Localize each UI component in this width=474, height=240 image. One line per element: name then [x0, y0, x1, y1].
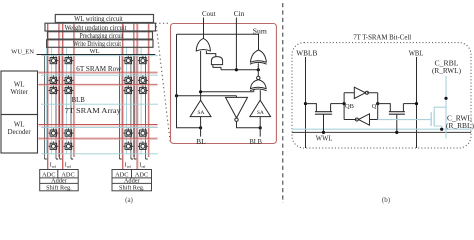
xor-gate (Sum)	[250, 50, 266, 62]
7T bit-cell dotted border	[292, 43, 471, 148]
wire Cout	[203, 18, 205, 39]
svg-text:Write Driving circuit: Write Driving circuit	[73, 40, 121, 48]
cell at (142.9,143.2)	[140, 143, 147, 149]
cell at (68.4,130.0)	[65, 130, 72, 136]
dashed divider between (a) and (b)	[282, 3, 284, 203]
or-gate (Cout)	[196, 38, 210, 50]
inverter (BL to BLB)	[226, 97, 248, 118]
svg-text:WU_EN: WU_EN	[11, 48, 34, 55]
cell at (128.3,57.5)	[125, 58, 132, 64]
wire Q to M2	[378, 104, 391, 112]
wire M2 gate to WWL	[396, 114, 398, 132]
cell at (68.4,57.5)	[65, 58, 72, 64]
svg-text:(R_RBL): (R_RBL)	[446, 123, 474, 130]
svg-text:Q: Q	[372, 103, 377, 110]
junction XOR input	[257, 68, 260, 71]
svg-text:Shift Reg.: Shift Reg.	[46, 185, 72, 192]
cell at (142.9,77.3)	[140, 77, 147, 83]
wire OR right input from AND	[206, 51, 215, 57]
cell at (128.3,87.4)	[125, 87, 132, 93]
svg-text:6T SRAM Row: 6T SRAM Row	[76, 65, 122, 73]
Weight updation circuit box	[45, 23, 156, 31]
wire AND inputs step	[213, 65, 221, 70]
svg-text:(b): (b)	[382, 196, 391, 204]
wire M3 gate to Q loop	[378, 119, 432, 121]
bitline columns (teal/black/red vertical lines of SRAM array)	[45, 48, 47, 154]
wire M1 gate to WWL	[323, 114, 325, 132]
svg-text:Adder: Adder	[124, 178, 141, 185]
svg-text:Precharging circuit: Precharging circuit	[80, 32, 124, 40]
wire WBLB	[305, 57, 307, 148]
svg-text:(a): (a)	[125, 196, 133, 204]
svg-text:Cin: Cin	[234, 10, 245, 18]
cell at (68.4,87.4)	[65, 87, 72, 93]
sense amp SA1	[190, 100, 211, 116]
cell at (53.4,87.4)	[50, 87, 57, 93]
transistor M1 (left access)	[330, 104, 332, 112]
svg-text:7T SRAM Array: 7T SRAM Array	[65, 107, 121, 115]
node QB	[343, 102, 346, 105]
inverter I1 (top, points right)	[354, 87, 365, 98]
wire M3 source to C_RWL	[434, 126, 442, 129]
cell at (68.4,77.3)	[65, 77, 72, 83]
wire Sum	[177, 34, 259, 50]
cell at (142.9,130.0)	[140, 130, 147, 136]
cell at (128.3,77.3)	[125, 77, 132, 83]
transistor M3 (cyan read)	[434, 107, 446, 112]
svg-text:WBL: WBL	[409, 51, 424, 58]
svg-text:C_RBL: C_RBL	[435, 61, 459, 68]
wire BL	[200, 117, 202, 137]
svg-text:WL writing circuit: WL writing circuit	[74, 15, 123, 23]
svg-text:Shift Reg.: Shift Reg.	[119, 185, 145, 192]
Precharging circuit box	[48, 32, 153, 39]
junction C_RBL	[444, 97, 447, 100]
node Q	[376, 102, 379, 105]
cell at (142.9,57.5)	[140, 58, 147, 64]
wire Cin	[235, 18, 237, 70]
wire WBLB to M1	[306, 104, 317, 112]
ADC/Adder/Shift Reg block	[112, 170, 152, 191]
svg-text:BLB: BLB	[249, 138, 262, 146]
wire XNOR left input from bus	[253, 89, 255, 92]
svg-text:QB: QB	[345, 103, 354, 110]
and-gate	[211, 57, 222, 65]
cell at (128.3,130.0)	[125, 130, 132, 136]
sense amp SA2	[250, 100, 271, 116]
transistor M2 (right access)	[402, 104, 404, 112]
wire C_RWL (teal horizontal)	[292, 128, 471, 130]
svg-text:Adder: Adder	[51, 178, 68, 185]
svg-text:WL: WL	[14, 122, 25, 129]
cell at (53.4,143.2)	[50, 143, 57, 149]
svg-text:BL: BL	[196, 138, 206, 146]
svg-text:(R_RWL): (R_RWL)	[432, 68, 461, 75]
red detail box	[171, 24, 277, 144]
wire BLB	[259, 117, 261, 137]
wire bus2 BL->inverter	[177, 95, 237, 97]
svg-text:WL: WL	[14, 82, 25, 89]
magnifier dotted connector (top)	[156, 22, 170, 24]
svg-text:SA: SA	[197, 110, 204, 116]
magnifier dotted diagonal	[156, 26, 170, 143]
ADC/Adder/Shift Reg block	[40, 170, 78, 191]
svg-text:Weight updation circuit: Weight updation circuit	[65, 24, 127, 32]
wire C_RBL (cyan vertical)	[445, 76, 447, 139]
cell at (128.3,143.2)	[125, 143, 132, 149]
wire M1 to QB	[331, 103, 345, 105]
svg-text:Writer: Writer	[10, 89, 28, 96]
svg-text:WBLB: WBLB	[296, 51, 317, 58]
wire WWL	[292, 131, 471, 133]
wire bus Cin/AND to XOR	[221, 69, 258, 71]
svg-text:BLB: BLB	[72, 97, 86, 104]
wire XNOR right input to SA2	[259, 90, 261, 100]
wire M2 to WBL	[403, 103, 416, 105]
svg-text:SA: SA	[257, 110, 264, 116]
WL writing circuit box	[55, 15, 153, 23]
cell at (53.4,130.0)	[50, 130, 57, 136]
junction WBLB	[304, 102, 307, 105]
cell at (53.4,77.3)	[50, 77, 57, 83]
xnor-gate	[257, 76, 260, 79]
inverter I2 (bottom, points left)	[358, 114, 369, 125]
wire BL left riser	[177, 34, 201, 128]
junction Cin	[235, 68, 238, 71]
wire OR left input / SA1 output to OR	[200, 51, 202, 100]
wire WL	[37, 54, 156, 56]
wire WBL	[416, 57, 418, 148]
junction WBL	[415, 102, 418, 105]
svg-text:WWL: WWL	[316, 136, 333, 143]
cell at (68.4,143.2)	[65, 143, 72, 149]
cell at (142.9,87.4)	[140, 87, 147, 93]
WL Writer box	[1, 71, 38, 115]
wire inverter out to BLB	[237, 122, 261, 128]
wire XOR to XNOR	[257, 63, 259, 76]
wire bus1 SA1->XNOR	[201, 91, 254, 93]
Write Driving circuit box	[47, 40, 153, 48]
WL Decoder box	[1, 115, 38, 154]
svg-text:Decoder: Decoder	[8, 129, 32, 136]
cell at (53.4,57.5)	[50, 58, 57, 64]
svg-text:C_RWL: C_RWL	[447, 116, 472, 123]
svg-text:WL: WL	[89, 48, 99, 55]
svg-text:7T T-SRAM Bit-Cell: 7T T-SRAM Bit-Cell	[353, 33, 411, 42]
cross-coupled inverter loop	[344, 93, 378, 120]
svg-text:Cout: Cout	[202, 10, 216, 18]
